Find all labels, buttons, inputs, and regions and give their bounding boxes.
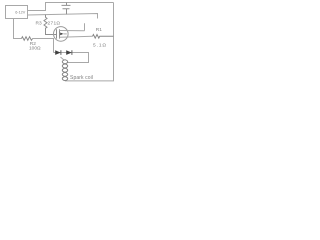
svg-text:100Ω: 100Ω	[29, 45, 41, 51]
svg-text:R3: R3	[36, 20, 42, 26]
svg-text:5.1Ω: 5.1Ω	[93, 42, 106, 48]
svg-text:Spark coil: Spark coil	[70, 75, 93, 81]
svg-text:R1: R1	[96, 27, 102, 33]
svg-text:6-12V: 6-12V	[15, 11, 26, 15]
svg-text:271Ω: 271Ω	[48, 20, 61, 26]
